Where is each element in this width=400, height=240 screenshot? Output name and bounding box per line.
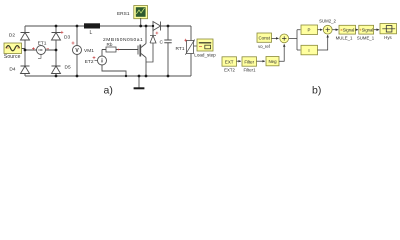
svg-text:SUME_1: SUME_1 (357, 35, 375, 40)
svg-text:b): b) (312, 84, 321, 96)
svg-text:MULE_1: MULE_1 (336, 35, 353, 40)
svg-text:D4: D4 (9, 67, 15, 73)
svg-text:Hys: Hys (384, 35, 391, 40)
svg-text:ERS1: ERS1 (117, 11, 130, 17)
svg-text:D3: D3 (64, 35, 70, 41)
svg-text:C: C (160, 40, 164, 46)
svg-text:+Signal: +Signal (359, 28, 373, 33)
svg-text:EXT: EXT (225, 59, 234, 64)
svg-text:I: I (308, 48, 309, 53)
svg-text:SUM2_2: SUM2_2 (319, 18, 336, 23)
svg-text:Neg: Neg (268, 59, 277, 64)
svg-text:Const: Const (258, 36, 270, 41)
svg-text:Load_step: Load_step (194, 53, 216, 58)
svg-text:a): a) (104, 85, 113, 97)
svg-text:vo_ref: vo_ref (258, 44, 270, 49)
svg-text:L: L (90, 30, 93, 36)
svg-text:D5: D5 (65, 65, 71, 71)
svg-text:ET2: ET2 (85, 59, 94, 65)
svg-text:Filter1: Filter1 (244, 68, 257, 73)
svg-text:×Signal: ×Signal (340, 28, 354, 33)
svg-text:RT1: RT1 (176, 46, 185, 52)
svg-text:ET1: ET1 (38, 41, 47, 47)
svg-text:Source: Source (4, 54, 21, 60)
svg-text:P: P (308, 28, 311, 33)
svg-text:Rb: Rb (107, 42, 113, 47)
svg-text:EXT2: EXT2 (224, 68, 235, 73)
svg-text:D2: D2 (9, 33, 15, 39)
svg-text:VM1: VM1 (84, 48, 94, 54)
svg-text:Filter: Filter (244, 59, 254, 64)
